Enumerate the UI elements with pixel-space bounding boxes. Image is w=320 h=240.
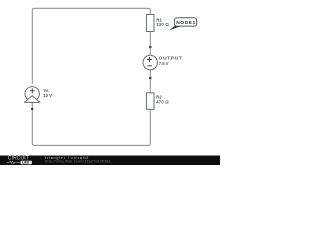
svg-text:LAB: LAB: [22, 161, 29, 165]
svg-text:http://circuitlab.com/c23a27e8: http://circuitlab.com/c23a27e83538a: [45, 160, 110, 164]
footer bar: [0, 156, 220, 166]
svg-text:OUTPUT: OUTPUT: [159, 55, 182, 60]
junction dot on node between OUTPUT and R2: [149, 77, 151, 79]
voltmeter probe OUTPUT: [143, 55, 157, 69]
svg-text:470 Ω: 470 Ω: [156, 99, 169, 104]
svg-text:7.5 V: 7.5 V: [159, 61, 169, 66]
node NODE1 callout: [169, 18, 197, 31]
svg-text:330 Ω: 330 Ω: [156, 22, 169, 27]
label R1 value: [156, 17, 169, 27]
svg-text:10 V: 10 V: [43, 93, 52, 98]
label OUTPUT value: [159, 55, 182, 66]
svg-text:NODE1: NODE1: [176, 20, 195, 26]
resistor R2: [146, 93, 154, 110]
wire: OUTPUT probe bottom to R2 top: [149, 70, 151, 93]
junction dot below Vs: [31, 108, 33, 110]
label R2 value: [156, 95, 169, 105]
wire top: Vs top to R1 top: [32, 8, 150, 84]
CircuitLab logo: [7, 156, 32, 165]
junction dot on node between R1 and OUTPUT: [149, 46, 151, 48]
voltage source Vs: [24, 87, 40, 103]
resistor R1: [146, 15, 154, 32]
wire: R1 bottom to OUTPUT probe top: [149, 32, 151, 56]
footer credit text: [45, 156, 110, 164]
label Vs value: [43, 88, 52, 98]
wire bottom: Vs bottom to R2 bottom: [32, 102, 150, 145]
